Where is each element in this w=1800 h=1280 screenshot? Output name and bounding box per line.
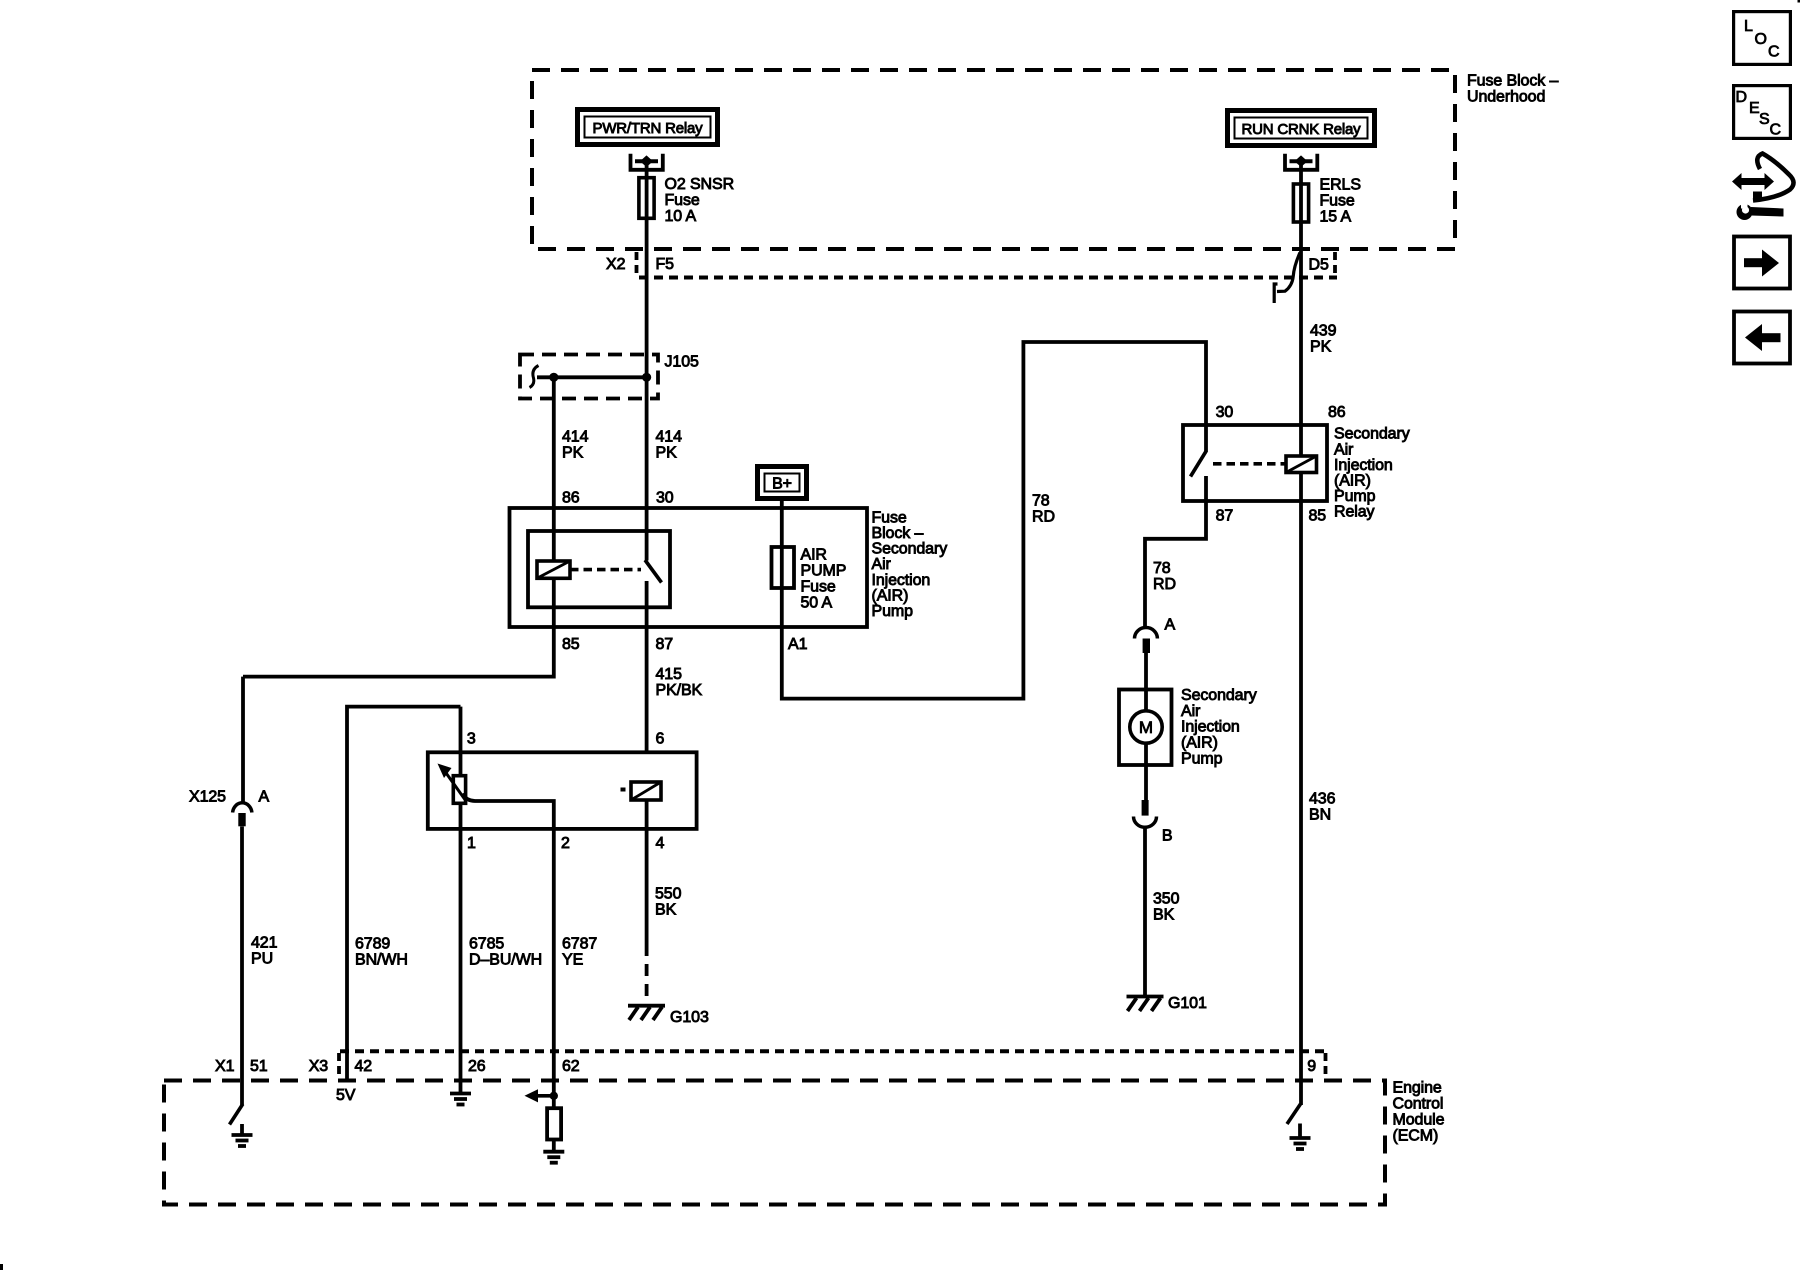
- label Engine Control Module (ECM): [1393, 1079, 1445, 1144]
- label 6789 BN/WH: [355, 935, 408, 968]
- svg-text:X125: X125: [189, 788, 226, 805]
- fuse AIR PUMP 50A: [772, 547, 795, 588]
- svg-text:RUN CRNK Relay: RUN CRNK Relay: [1242, 121, 1362, 138]
- svg-text:PK: PK: [1310, 339, 1332, 356]
- svg-text:D–BU/WH: D–BU/WH: [469, 951, 542, 968]
- svg-text:10 A: 10 A: [665, 208, 697, 225]
- svg-text:Injection: Injection: [872, 572, 931, 589]
- svg-text:Relay: Relay: [1334, 504, 1375, 521]
- splice J105 dashed box: [520, 355, 658, 399]
- svg-text:Secondary: Secondary: [872, 541, 948, 558]
- relay label RUN CRNK Relay: [1228, 111, 1375, 146]
- label Secondary Air Injection (AIR) Pump Relay: [1334, 426, 1410, 521]
- wire 436 BN relay pin 85 to ECM pin 9: [1299, 501, 1303, 1105]
- svg-text:BN/WH: BN/WH: [355, 951, 408, 968]
- dotted connector line bottom: [340, 1049, 1325, 1053]
- icon arrow left box: [1734, 312, 1790, 364]
- svg-text:414: 414: [562, 429, 589, 446]
- icon LOC box: [1734, 12, 1791, 65]
- label 439 PK: [1310, 323, 1337, 356]
- relay coil left: [537, 561, 570, 578]
- pump motor M: [1130, 690, 1162, 766]
- wire B+ to AIR PUMP fuse: [780, 501, 784, 627]
- svg-text:O2 SNSR: O2 SNSR: [665, 176, 735, 193]
- svg-text:(AIR): (AIR): [1334, 473, 1371, 490]
- svg-text:PUMP: PUMP: [801, 562, 847, 579]
- wire 421 PU to ECM pin 51: [240, 827, 244, 1106]
- svg-text:D5: D5: [1309, 257, 1329, 274]
- ECM pin 62 internal arrow resistor ground: [525, 1081, 565, 1163]
- svg-text:O: O: [1755, 31, 1767, 48]
- wire 421 PU down to X125: [241, 677, 245, 802]
- svg-text:Fuse: Fuse: [1320, 192, 1355, 209]
- splice wire horizontal: [537, 375, 647, 379]
- relay switch blade left: [645, 560, 662, 583]
- svg-text:Air: Air: [872, 556, 892, 573]
- label Fuse Block - Secondary Air Injection (AIR) Pump: [872, 509, 948, 620]
- svg-text:Injection: Injection: [1181, 719, 1240, 736]
- svg-text:42: 42: [355, 1058, 373, 1075]
- wire solenoid pin 4 550 BK: [645, 800, 649, 1001]
- svg-text:F5: F5: [656, 256, 675, 273]
- svg-text:ERLS: ERLS: [1320, 176, 1361, 193]
- wire connector A to pump: [1144, 653, 1148, 690]
- wire 6789 BN/WH pin 42 to solenoid pin 3: [347, 707, 461, 1081]
- svg-text:Control: Control: [1393, 1095, 1444, 1112]
- relay label PWR/TRN Relay: [578, 110, 718, 145]
- svg-text:5V: 5V: [336, 1087, 356, 1104]
- svg-text:78: 78: [1153, 560, 1171, 577]
- svg-text:2: 2: [561, 835, 570, 852]
- wire pump to connector B: [1144, 765, 1148, 800]
- page corner mark top right: [1798, 0, 1800, 3]
- svg-text:X2: X2: [606, 256, 626, 273]
- page edge mark bottom left: [0, 1264, 3, 1270]
- svg-text:85: 85: [1309, 508, 1327, 525]
- svg-text:350: 350: [1153, 890, 1180, 907]
- ground G103: [628, 1006, 665, 1020]
- svg-text:26: 26: [468, 1058, 486, 1075]
- svg-text:X1: X1: [215, 1058, 235, 1075]
- solenoid coil element: [621, 782, 662, 800]
- svg-text:6787: 6787: [562, 935, 597, 952]
- label 415 PK/BK: [656, 666, 703, 699]
- label 78 RD second: [1153, 560, 1176, 593]
- svg-text:62: 62: [562, 1058, 580, 1075]
- svg-text:RD: RD: [1153, 576, 1176, 593]
- icon arrow right box: [1734, 237, 1790, 289]
- ECM pin row labels: [215, 1058, 1316, 1075]
- svg-text:86: 86: [562, 490, 580, 507]
- relay lower contact right: [1204, 476, 1208, 501]
- svg-text:X3: X3: [309, 1058, 329, 1075]
- relay coil right: [1286, 456, 1317, 473]
- fuse holder bracket left: [631, 154, 663, 170]
- wire 414 PK to relay coil 86: [552, 377, 556, 561]
- svg-text:A1: A1: [788, 636, 808, 653]
- svg-text:1: 1: [467, 835, 476, 852]
- svg-text:L: L: [1744, 18, 1753, 35]
- solenoid box: [428, 752, 697, 829]
- relay switch blade right: [1191, 451, 1207, 477]
- wire ERLS fuse to relay coil 86: [1299, 162, 1303, 457]
- svg-text:85: 85: [562, 636, 580, 653]
- fuse block underhood dashed box: [532, 70, 1455, 249]
- svg-text:BN: BN: [1309, 807, 1331, 824]
- B+ boxed label: [758, 467, 807, 499]
- svg-text:C: C: [1770, 122, 1782, 139]
- svg-text:Underhood: Underhood: [1467, 88, 1545, 105]
- svg-text:15 A: 15 A: [1320, 208, 1352, 225]
- label Fuse Block - Underhood: [1467, 72, 1558, 105]
- connector D5 row: [1309, 252, 1336, 275]
- svg-text:(AIR): (AIR): [872, 587, 909, 604]
- svg-text:Pump: Pump: [872, 603, 914, 620]
- svg-text:AIR: AIR: [801, 546, 827, 563]
- svg-text:(AIR): (AIR): [1181, 735, 1218, 752]
- wire relay coil to pin 85: [1299, 473, 1303, 502]
- svg-text:Fuse Block –: Fuse Block –: [1467, 72, 1558, 89]
- fuse block AIR pump outer box: [510, 508, 868, 627]
- label O2 SNSR Fuse 10 A: [665, 176, 735, 225]
- svg-text:6789: 6789: [355, 935, 390, 952]
- icon wiring jump squiggle: [1732, 154, 1794, 221]
- svg-text:PK/BK: PK/BK: [656, 682, 703, 699]
- svg-text:87: 87: [1216, 508, 1234, 525]
- connector B of pump: [1134, 800, 1157, 827]
- svg-text:S: S: [1759, 111, 1770, 128]
- svg-text:Fuse: Fuse: [665, 192, 700, 209]
- ECM pin 9 switch to ground: [1287, 1104, 1311, 1149]
- svg-text:6785: 6785: [469, 935, 504, 952]
- svg-text:Module: Module: [1393, 1111, 1445, 1128]
- svg-text:9: 9: [1307, 1058, 1316, 1075]
- ECM pin 26 internal ground: [450, 1081, 471, 1105]
- svg-text:50 A: 50 A: [801, 594, 833, 611]
- relay pin labels 30 86 87 85: [1216, 404, 1346, 525]
- svg-text:30: 30: [1216, 404, 1234, 421]
- svg-text:G103: G103: [670, 1009, 709, 1026]
- svg-text:PK: PK: [562, 445, 584, 462]
- svg-text:M: M: [1139, 718, 1153, 737]
- svg-text:30: 30: [656, 490, 674, 507]
- wire solenoid pin 3 through pin 1 to ECM pin 26: [459, 707, 463, 1081]
- ECM pin 51 switch to ground: [230, 1104, 253, 1146]
- svg-text:(ECM): (ECM): [1393, 1127, 1439, 1144]
- solenoid pin labels 3 6 1 2 4: [467, 730, 665, 852]
- label X125 A: [189, 788, 270, 805]
- solenoid wiper to pin 2 wire 6787 YE: [462, 794, 554, 1081]
- svg-text:3: 3: [467, 730, 476, 747]
- svg-text:78: 78: [1032, 493, 1050, 510]
- ground G101: [1127, 997, 1164, 1012]
- label Secondary Air Injection (AIR) Pump: [1181, 687, 1257, 767]
- AIR pump relay inner box: [528, 531, 670, 607]
- wire pin 85 down and left: [243, 627, 554, 677]
- svg-text:YE: YE: [562, 951, 583, 968]
- svg-text:RD: RD: [1032, 509, 1055, 526]
- svg-text:D: D: [1736, 89, 1748, 106]
- label 6785 D-BU/WH: [469, 935, 542, 968]
- svg-text:PU: PU: [251, 950, 273, 967]
- svg-text:B+: B+: [772, 476, 792, 493]
- svg-text:550: 550: [655, 885, 682, 902]
- label 78 RD first: [1032, 493, 1055, 526]
- dotted connector line top: [639, 276, 1337, 280]
- svg-text:G101: G101: [1168, 995, 1207, 1012]
- solenoid variable element: [438, 764, 467, 804]
- svg-text:414: 414: [656, 429, 683, 446]
- fuse holder bracket right: [1285, 154, 1317, 170]
- icon DESC box: [1734, 86, 1791, 139]
- relay dashed link right: [1213, 462, 1286, 466]
- svg-text:436: 436: [1309, 791, 1336, 808]
- fuse ERLS 15A: [1293, 184, 1308, 222]
- junction dot J105 right: [642, 373, 651, 382]
- svg-text:Fuse: Fuse: [801, 578, 836, 595]
- svg-text:87: 87: [656, 636, 674, 653]
- junction dot J105 left: [549, 373, 558, 382]
- label 550 BK: [655, 885, 682, 918]
- connector D5 pigtail: [1274, 253, 1300, 304]
- wire relay pin 87 to connector A: [1145, 501, 1206, 628]
- svg-text:Engine: Engine: [1393, 1079, 1442, 1096]
- svg-text:BK: BK: [655, 901, 677, 918]
- label 414 PK left: [562, 429, 589, 462]
- label 414 PK right: [656, 429, 683, 462]
- svg-text:4: 4: [656, 835, 665, 852]
- svg-text:A: A: [1165, 616, 1176, 633]
- svg-text:421: 421: [251, 934, 278, 951]
- pump box: [1119, 690, 1172, 766]
- svg-text:Secondary: Secondary: [1334, 426, 1410, 443]
- svg-text:415: 415: [656, 666, 683, 683]
- svg-text:51: 51: [250, 1058, 268, 1075]
- svg-text:Fuse: Fuse: [872, 509, 907, 526]
- svg-text:Block –: Block –: [872, 525, 924, 542]
- connector X125 A: [233, 803, 252, 827]
- wire F5 to solenoid pin 6 vertical: [645, 162, 649, 753]
- svg-text:Pump: Pump: [1334, 488, 1376, 505]
- label 421 PU: [251, 934, 278, 967]
- connector A of pump: [1135, 628, 1158, 654]
- label AIR PUMP Fuse 50 A: [801, 546, 847, 611]
- svg-text:A: A: [259, 788, 270, 805]
- svg-text:C: C: [1768, 44, 1780, 61]
- svg-text:Secondary: Secondary: [1181, 687, 1257, 704]
- wire 350 BK to G101: [1143, 827, 1147, 996]
- connector X2 F5 row: [606, 252, 674, 275]
- svg-text:6: 6: [656, 730, 665, 747]
- wire 78 RD from A1 to relay pin 30: [782, 342, 1206, 699]
- connector X3 separator: [337, 1053, 341, 1077]
- svg-text:86: 86: [1328, 404, 1346, 421]
- wire coil to pin 85: [552, 578, 556, 627]
- svg-text:J105: J105: [665, 354, 699, 371]
- label 350 BK: [1153, 890, 1180, 923]
- svg-text:PWR/TRN Relay: PWR/TRN Relay: [593, 120, 704, 137]
- svg-text:B: B: [1162, 828, 1173, 845]
- svg-text:PK: PK: [656, 445, 678, 462]
- svg-text:Air: Air: [1334, 441, 1354, 458]
- svg-text:Air: Air: [1181, 703, 1201, 720]
- relay dashed link left: [570, 568, 641, 572]
- label 6787 YE: [562, 935, 597, 968]
- splice pigtail hook: [530, 366, 539, 388]
- AIR pump relay box: [1183, 425, 1327, 501]
- fuse O2 SNSR 10A: [639, 178, 654, 219]
- label ERLS Fuse 15 A: [1320, 176, 1361, 225]
- svg-text:439: 439: [1310, 323, 1337, 340]
- ECM dashed box: [164, 1081, 1385, 1205]
- svg-text:BK: BK: [1153, 906, 1175, 923]
- svg-text:Pump: Pump: [1181, 750, 1223, 767]
- svg-text:Injection: Injection: [1334, 457, 1393, 474]
- connector 9 separator: [1324, 1053, 1328, 1077]
- label 436 BN: [1309, 791, 1336, 824]
